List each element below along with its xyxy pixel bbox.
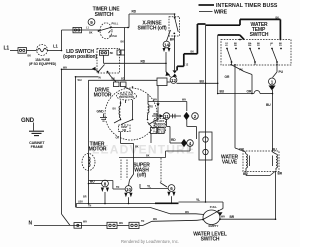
svg-text:WH: WH (185, 211, 189, 214)
svg-text:BK: BK (135, 146, 139, 149)
svg-text:WH: WH (153, 218, 157, 221)
svg-text:SWITCH: SWITCH (95, 12, 114, 18)
svg-text:BR: BR (83, 196, 87, 199)
svg-text:BU: BU (272, 148, 277, 152)
svg-text:SWITCH: SWITCH (250, 32, 269, 38)
svg-text:TN: TN (116, 186, 119, 189)
svg-text:YL: YL (196, 198, 200, 202)
svg-text:OR: OR (225, 75, 230, 79)
svg-text:SWITCH: SWITCH (201, 237, 220, 243)
svg-text:FULL: FULL (210, 205, 218, 209)
svg-text:WH: WH (119, 222, 123, 225)
svg-text:BU: BU (220, 90, 225, 94)
svg-text:PU: PU (279, 70, 284, 74)
svg-text:YL: YL (147, 184, 151, 188)
svg-text:MOTOR: MOTOR (94, 93, 112, 99)
svg-text:BU: BU (200, 79, 205, 83)
svg-text:RM: RM (248, 45, 252, 47)
svg-text:PK: PK (240, 69, 244, 72)
svg-text:WH: WH (221, 216, 225, 219)
svg-text:BK: BK (89, 32, 93, 35)
svg-text:WH: WH (63, 66, 67, 69)
svg-text:BK: BK (110, 52, 114, 55)
svg-text:INTERNAL TIMER BUSS: INTERNAL TIMER BUSS (216, 3, 278, 9)
svg-text:BU: BU (243, 172, 248, 176)
svg-text:PUSH: PUSH (110, 34, 117, 38)
svg-text:PROTECTOR: PROTECTOR (119, 96, 134, 99)
svg-text:N: N (29, 221, 33, 227)
svg-text:WH: WH (182, 99, 186, 102)
svg-text:ONLY: ONLY (156, 129, 163, 132)
svg-text:BK: BK (121, 41, 125, 44)
svg-text:RD: RD (141, 59, 146, 63)
svg-text:L1: L1 (4, 46, 10, 52)
svg-text:PULL: PULL (112, 22, 119, 26)
svg-text:BU: BU (266, 103, 271, 107)
svg-text:LD: LD (225, 45, 228, 47)
svg-text:TN: TN (88, 205, 91, 208)
svg-text:BK: BK (276, 16, 280, 19)
svg-text:L1: L1 (53, 44, 58, 49)
svg-text:VALVE: VALVE (222, 160, 238, 166)
svg-text:OR: OR (116, 137, 120, 140)
svg-text:10: 10 (126, 187, 132, 192)
svg-text:BR: BR (278, 172, 283, 176)
svg-text:(IF SO EQUIPPED): (IF SO EQUIPPED) (29, 62, 56, 66)
svg-text:BK: BK (154, 113, 158, 116)
svg-text:PK: PK (257, 45, 260, 47)
svg-text:WH: WH (78, 79, 82, 82)
svg-text:BK: BK (28, 55, 32, 58)
svg-text:BK: BK (146, 154, 150, 157)
svg-text:RD: RD (132, 10, 137, 14)
svg-text:WH: WH (83, 220, 87, 223)
svg-text:EMPTY: EMPTY (209, 224, 219, 228)
svg-text:LEADVENTURE: LEADVENTURE (92, 143, 195, 157)
svg-text:FRAME: FRAME (31, 145, 44, 149)
svg-text:(open position): (open position) (63, 54, 97, 60)
svg-text:SWITCH (off): SWITCH (off) (137, 26, 167, 32)
svg-text:12: 12 (171, 78, 177, 83)
svg-text:14: 14 (164, 42, 170, 47)
svg-text:RD: RD (150, 106, 154, 109)
svg-text:BU: BU (113, 108, 117, 111)
svg-text:11: 11 (164, 114, 169, 119)
svg-text:BK: BK (191, 51, 195, 54)
svg-text:TN: TN (141, 220, 144, 223)
svg-text:(off): (off) (137, 173, 146, 179)
svg-text:BR: BR (230, 215, 235, 219)
svg-text:PU: PU (279, 45, 282, 47)
svg-text:GND: GND (21, 118, 35, 124)
svg-text:WH: WH (153, 99, 157, 102)
svg-text:GND: GND (97, 110, 105, 114)
svg-text:RD: RD (234, 45, 238, 47)
svg-text:LBU: LBU (78, 201, 83, 204)
svg-text:OR: OR (247, 89, 252, 93)
svg-text:OR: OR (239, 148, 244, 152)
svg-text:RD: RD (171, 138, 176, 142)
svg-text:TN: TN (98, 76, 101, 79)
svg-text:BU: BU (90, 179, 95, 183)
svg-text:Rendered by LeadVenture, Inc.: Rendered by LeadVenture, Inc. (121, 239, 179, 244)
svg-text:WIRE: WIRE (214, 10, 228, 16)
svg-text:MOTOR: MOTOR (89, 147, 107, 153)
